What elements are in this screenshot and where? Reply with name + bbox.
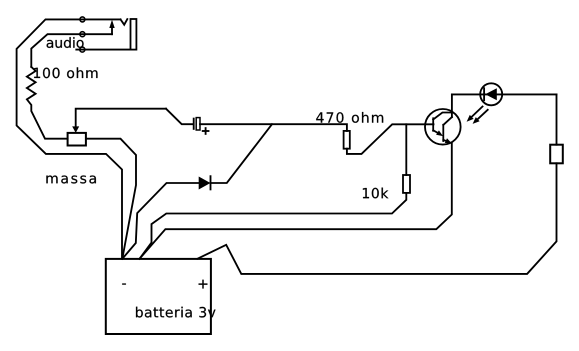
wire 10k bottom to battery minus [140,193,407,259]
resistor right body [550,145,563,164]
pin circle 3 [80,47,85,52]
pin circle 1 [80,17,85,22]
wire collector up to LED line [451,94,453,117]
label 100 ohm [34,67,98,78]
transistor Q1 circle [425,109,461,145]
diode D1 cathode bar [210,176,212,189]
wire emitter down to battery minus [140,143,452,258]
pin circle 2 [80,32,85,37]
wire right side: LED to resistor to battery plus [556,94,558,144]
transistor Q1 base bar 2 [442,125,444,141]
audio jack body J1 [131,19,137,50]
transistor Q1 emitter 1 with arrow [433,130,438,133]
label + [199,280,208,289]
transistor Q1 emitter 2 with arrow [443,140,447,142]
jack tip notch V [121,19,128,25]
LED emission arrow 2 [478,110,488,120]
resistor 100 ohm zigzag [27,67,68,139]
resistor 470 ohm body [344,131,350,149]
label - [122,284,126,285]
resistor 10k body [403,175,410,193]
diode D1 triangle [199,177,211,190]
LED emission arrow 1 [472,107,483,118]
wire cap output to 470 ohm [200,124,347,131]
trimmer wiper arrow and wire to capacitor [76,109,166,127]
wire resistor bottom to battery plus [197,163,556,274]
label batteria 3v [136,307,216,318]
transistor Q1 collector 2 [443,117,452,125]
capacitor plus sign [203,130,209,132]
wire massa outer: audio top pin to battery minus [17,19,122,258]
wire trimmer right to battery minus [86,139,136,259]
LED cathode bar [483,88,485,100]
LED circle [480,83,502,105]
wire 470 ohm bottom jog to transistor base [347,124,434,154]
wire diode branch from node to diode [211,124,273,183]
capacitor C1 left plate [193,119,195,129]
capacitor C1 right plate box [196,118,200,130]
label 470 ohm [316,112,383,123]
arrow into top wire from middle pin [111,28,113,34]
transistor Q1 base bar 1 [432,118,434,131]
trimmer (massa pot) body [68,133,86,146]
label audio [47,37,84,48]
transistor Q1 collector 1 [433,113,452,120]
wire audio middle pin to trimmer left [31,34,112,67]
label 10k [363,188,389,199]
label massa [46,176,96,184]
LED triangle [485,88,497,100]
wire 10k branch down [405,124,407,175]
audio bottom pin wire [76,49,130,51]
wire diode anode to battery minus [122,183,198,259]
battery body [106,259,211,334]
wire LED line across top [452,93,557,95]
